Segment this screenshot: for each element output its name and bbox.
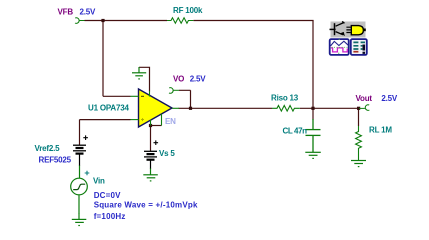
- svg-text:RL 1M: RL 1M: [369, 126, 392, 135]
- wire Vref to non-inverting input: [80, 119, 131, 121]
- source waveform glyph: [73, 184, 85, 189]
- junction CL: [311, 107, 314, 110]
- svg-text:Vin: Vin: [93, 177, 105, 186]
- svg-text:Riso 13: Riso 13: [271, 94, 299, 103]
- svg-text:DC=0V: DC=0V: [94, 191, 121, 200]
- svg-text:Vs 5: Vs 5: [159, 149, 175, 158]
- svg-text:RF 100k: RF 100k: [173, 6, 203, 15]
- svg-text:CL 47n: CL 47n: [283, 127, 308, 136]
- pin Vout: [359, 105, 369, 111]
- resistor RLIM vertical: [356, 126, 362, 160]
- svg-text:U1 OPA734: U1 OPA734: [88, 103, 129, 112]
- pin VO: [169, 88, 179, 94]
- svg-text:Vref2.5: Vref2.5: [35, 144, 61, 153]
- op-amp minus marker: [141, 95, 144, 97]
- svg-text:Vout: Vout: [356, 94, 373, 103]
- svg-text:f=100Hz: f=100Hz: [94, 212, 126, 221]
- svg-text:2.5V: 2.5V: [190, 74, 207, 83]
- wire Vref corner down to battery: [79, 120, 81, 146]
- ground below CL: [305, 152, 321, 158]
- svg-text:REF5025: REF5025: [39, 156, 72, 165]
- wire output op-amp to Riso: [179, 107, 273, 109]
- op-amp U1 OPA734 triangle: [139, 89, 173, 127]
- wire ground G1 to V+ supply: [139, 67, 150, 92]
- wire VFB node down: [102, 21, 104, 97]
- icon bottom-left (waveforms): [330, 39, 349, 55]
- wire VO tap: [179, 90, 191, 108]
- battery Vs 5: [144, 140, 158, 168]
- ground below RLIM: [351, 161, 366, 167]
- junction Vout: [357, 107, 360, 110]
- svg-text:2.5V: 2.5V: [381, 94, 398, 103]
- junction VO output: [189, 107, 192, 110]
- source plus marker: [85, 171, 90, 176]
- wire to inverting input: [103, 95, 131, 97]
- ground G1 above op-amp: [132, 67, 146, 79]
- op-amp plus marker: [141, 118, 144, 121]
- wire VFB pin to junction: [85, 20, 104, 22]
- wire junction to RF: [103, 20, 167, 22]
- resistor Riso 13: [272, 106, 300, 112]
- svg-text:Square Wave = +/-10mVpk: Square Wave = +/-10mVpk: [94, 201, 198, 210]
- wire CL branch top: [312, 108, 314, 120]
- wire feedback vertical: [312, 21, 314, 109]
- svg-text:EN: EN: [165, 117, 176, 126]
- wire RLIM branch top: [358, 108, 360, 126]
- junction VFB: [101, 19, 104, 22]
- junction V- EN: [149, 124, 152, 127]
- icon bottom-right (list): [351, 39, 367, 55]
- svg-text:2.5V: 2.5V: [80, 7, 97, 16]
- op-amp V- stub: [150, 120, 152, 126]
- op-amp input stub plus: [131, 119, 139, 121]
- op-amp V+ stub: [149, 91, 151, 97]
- battery Vref2.5 REF5025: [73, 135, 88, 166]
- source Vin circle: [71, 178, 88, 195]
- wire EN to junction: [151, 125, 162, 127]
- pin VFB: [75, 18, 85, 24]
- resistor RF 100k: [167, 18, 193, 23]
- icon block top (connector): [330, 21, 366, 37]
- op-amp output stub: [172, 107, 179, 109]
- ground below source: [72, 213, 87, 226]
- source Vin lead top: [78, 166, 81, 214]
- ground below Vs battery: [143, 168, 158, 181]
- capacitor CL 47n: [306, 119, 321, 152]
- svg-text:VFB: VFB: [58, 7, 74, 16]
- op-amp input stub minus: [131, 95, 139, 97]
- svg-text:VO: VO: [173, 74, 184, 83]
- wire V- junction down to Vs battery: [150, 125, 152, 151]
- wire Riso to Vout junction: [300, 107, 359, 109]
- wire RF to feedback corner: [194, 20, 314, 22]
- op-amp EN stub: [161, 114, 163, 126]
